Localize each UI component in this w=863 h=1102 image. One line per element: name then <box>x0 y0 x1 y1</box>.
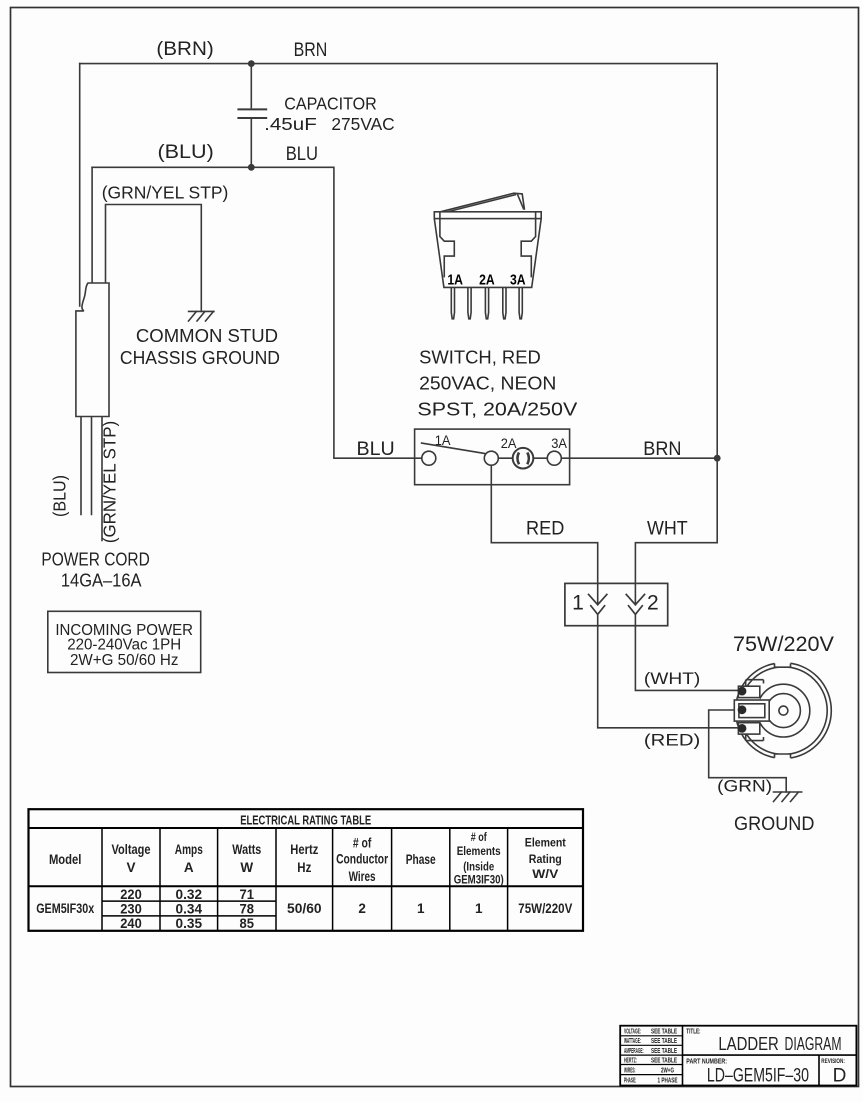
svg-text:230: 230 <box>120 902 142 917</box>
svg-text:VOLTAGE:: VOLTAGE: <box>624 1029 641 1036</box>
svg-text:Amps: Amps <box>175 842 203 857</box>
svg-text:78: 78 <box>240 902 255 917</box>
svg-text:2: 2 <box>358 901 366 916</box>
svg-text:220: 220 <box>120 887 142 902</box>
svg-text:AMPERAGE:: AMPERAGE: <box>624 1048 644 1055</box>
svg-text:WIRES:: WIRES: <box>624 1067 636 1074</box>
svg-text:2: 2 <box>647 592 659 615</box>
svg-text:75W/220V: 75W/220V <box>733 632 835 656</box>
svg-text:BLU: BLU <box>286 143 318 165</box>
svg-text:LD–GEM5IF–30: LD–GEM5IF–30 <box>707 1066 809 1087</box>
svg-text:WATTAGE:: WATTAGE: <box>624 1038 641 1045</box>
svg-text:SEE TABLE: SEE TABLE <box>651 1038 677 1045</box>
svg-text:(GRN/YEL STP): (GRN/YEL STP) <box>100 421 120 543</box>
svg-text:85: 85 <box>240 916 255 931</box>
svg-text:ELECTRICAL RATING TABLE: ELECTRICAL RATING TABLE <box>240 814 371 828</box>
svg-text:HERTZ:: HERTZ: <box>624 1057 637 1064</box>
svg-text:DIAGRAM: DIAGRAM <box>785 1034 842 1054</box>
svg-text:Wires: Wires <box>349 869 376 884</box>
svg-text:BLU: BLU <box>357 438 395 460</box>
svg-text:Hertz: Hertz <box>290 842 318 857</box>
svg-text:BRN: BRN <box>294 39 328 61</box>
svg-text:COMMON STUD: COMMON STUD <box>136 326 278 346</box>
svg-text:14GA–16A: 14GA–16A <box>61 570 142 590</box>
svg-text:Voltage: Voltage <box>112 842 151 857</box>
svg-text:# of: # of <box>471 832 487 844</box>
svg-text:Conductor: Conductor <box>336 852 389 867</box>
svg-text:0.32: 0.32 <box>176 887 203 902</box>
svg-text:.45uF: .45uF <box>264 114 317 134</box>
svg-text:1A: 1A <box>447 272 463 289</box>
svg-text:71: 71 <box>240 887 255 902</box>
svg-text:CHASSIS GROUND: CHASSIS GROUND <box>120 348 280 368</box>
svg-text:PART NUMBER:: PART NUMBER: <box>686 1059 727 1066</box>
svg-text:3A: 3A <box>510 272 526 289</box>
svg-text:(BLU): (BLU) <box>50 475 70 517</box>
svg-text:1: 1 <box>572 592 584 615</box>
svg-text:75W/220V: 75W/220V <box>518 901 572 916</box>
svg-text:W: W <box>240 860 253 875</box>
svg-text:TITLE:: TITLE: <box>686 1029 700 1036</box>
svg-text:Elements: Elements <box>457 846 501 858</box>
svg-text:50/60: 50/60 <box>287 901 322 916</box>
svg-text:0.35: 0.35 <box>176 916 203 931</box>
svg-text:1 PHASE: 1 PHASE <box>658 1078 678 1085</box>
svg-text:Element: Element <box>525 836 566 850</box>
svg-text:GROUND: GROUND <box>734 813 814 835</box>
svg-text:(BRN): (BRN) <box>156 39 213 60</box>
svg-text:2W+G: 2W+G <box>661 1067 674 1074</box>
svg-text:220-240Vac 1PH: 220-240Vac 1PH <box>67 637 181 654</box>
svg-text:REVISION:: REVISION: <box>821 1058 845 1065</box>
svg-text:2W+G 50/60 Hz: 2W+G 50/60 Hz <box>70 652 179 669</box>
svg-text:SEE TABLE: SEE TABLE <box>651 1029 677 1036</box>
svg-text:W/V: W/V <box>532 867 558 881</box>
svg-text:(RED): (RED) <box>644 730 700 749</box>
svg-text:POWER CORD: POWER CORD <box>41 549 149 569</box>
svg-text:SPST, 20A/250V: SPST, 20A/250V <box>417 400 577 420</box>
svg-text:Phase: Phase <box>406 852 436 867</box>
svg-text:CAPACITOR: CAPACITOR <box>284 94 377 114</box>
svg-text:BRN: BRN <box>643 438 681 460</box>
svg-text:SWITCH, RED: SWITCH, RED <box>419 348 541 368</box>
svg-text:(Inside: (Inside <box>463 862 494 874</box>
svg-text:0.34: 0.34 <box>176 902 203 917</box>
svg-text:SEE TABLE: SEE TABLE <box>651 1057 677 1064</box>
svg-text:LADDER: LADDER <box>718 1034 778 1054</box>
svg-text:240: 240 <box>120 916 142 931</box>
svg-text:Model: Model <box>49 852 82 867</box>
svg-text:(GRN): (GRN) <box>717 777 772 796</box>
svg-text:1A: 1A <box>435 432 451 448</box>
svg-text:PHASE:: PHASE: <box>624 1078 636 1085</box>
svg-text:GEM5IF30x: GEM5IF30x <box>36 901 94 916</box>
svg-text:(BLU): (BLU) <box>158 142 214 163</box>
svg-text:V: V <box>126 860 135 875</box>
svg-text:# of: # of <box>353 836 372 851</box>
svg-text:1: 1 <box>417 901 425 916</box>
svg-text:Hz: Hz <box>297 860 311 875</box>
svg-text:275VAC: 275VAC <box>331 114 394 134</box>
svg-text:D: D <box>833 1066 847 1087</box>
svg-text:(GRN/YEL STP): (GRN/YEL STP) <box>102 183 229 203</box>
svg-text:2A: 2A <box>479 272 495 289</box>
svg-text:Rating: Rating <box>529 852 562 866</box>
svg-text:250VAC, NEON: 250VAC, NEON <box>419 374 556 394</box>
svg-text:1: 1 <box>475 901 483 916</box>
svg-text:GEM3IF30): GEM3IF30) <box>454 875 504 887</box>
svg-text:WHT: WHT <box>647 518 688 540</box>
svg-text:A: A <box>184 860 194 875</box>
svg-text:(WHT): (WHT) <box>644 669 700 688</box>
svg-text:RED: RED <box>526 518 564 540</box>
svg-text:SEE TABLE: SEE TABLE <box>651 1048 677 1055</box>
svg-text:3A: 3A <box>551 435 567 451</box>
svg-text:Watts: Watts <box>232 842 261 857</box>
svg-text:2A: 2A <box>501 435 517 451</box>
